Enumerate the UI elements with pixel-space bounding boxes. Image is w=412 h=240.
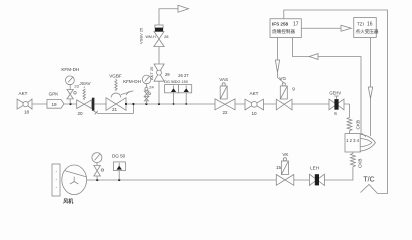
label VGBF 21 (109, 74, 122, 112)
valve AKT 29 (154, 64, 165, 81)
label CKB gas flex (356, 120, 361, 129)
svg-text:VAS: VAS (219, 77, 228, 82)
svg-text:6: 6 (334, 111, 337, 116)
gauge with test valve on air line (92, 153, 104, 181)
svg-text:点火变压器: 点火变压器 (356, 28, 379, 35)
valve LEH damper (309, 174, 324, 186)
ignition transformer box TZI (354, 18, 377, 38)
impulse line from JSAV to downstream (93, 104, 133, 114)
valve AKT 10 (245, 99, 264, 110)
valve JSAV 20 (77, 87, 95, 111)
label DG 50 air (112, 154, 126, 159)
label AKT 25 29 (149, 66, 170, 80)
svg-text:VGBF: VGBF (109, 74, 122, 79)
svg-text:烧嘴控制器: 烧嘴控制器 (272, 28, 295, 35)
svg-text:10: 10 (251, 111, 257, 116)
svg-text:IFS 258: IFS 258 (272, 22, 289, 27)
svg-text:CKB: CKB (356, 120, 361, 129)
thermocouple T/C (361, 185, 378, 194)
valve VG 9 solenoid (276, 83, 292, 111)
label fan 风机 (63, 198, 73, 205)
valve VSBV 28 relief (154, 25, 164, 47)
impulse line from VGBF dome to downstream (121, 91, 134, 95)
svg-text:VG: VG (279, 76, 286, 81)
wire IFS top loop to thermocouple (284, 10, 388, 194)
burner box 1 2 3 4 (345, 134, 360, 152)
wire gas drop to burner with CKB flex (347, 104, 352, 134)
svg-text:WM-H: WM-H (146, 35, 157, 39)
svg-text:LEH: LEH (310, 166, 319, 171)
label VSBV 25 (139, 27, 144, 44)
vent arrow (178, 5, 189, 12)
svg-text:DG 150: DG 150 (175, 80, 188, 84)
label TZI 16 (356, 22, 379, 36)
svg-text:KFM-DH: KFM-DH (123, 79, 141, 84)
wire flame signal from burner to IFS (293, 38, 367, 137)
node junction before JSAV (69, 103, 71, 105)
label GPK 19 (49, 91, 60, 106)
wire IFS control to VG with arrow (275, 38, 283, 83)
label T/C (363, 176, 374, 183)
gauge KFM-DH 24 with test valve (142, 75, 151, 105)
svg-text:T/C: T/C (363, 176, 374, 183)
label KFM-DH (61, 67, 79, 89)
wire vent riser (158, 9, 178, 105)
pressure switch DG50 DG150 26 27 (165, 85, 192, 105)
label AKT 18 (19, 91, 30, 114)
svg-text:15: 15 (276, 165, 282, 170)
svg-text:29: 29 (165, 72, 170, 77)
svg-text:CKB: CKB (358, 159, 363, 168)
svg-text:21: 21 (112, 107, 118, 112)
svg-text:1 2 3 4: 1 2 3 4 (346, 138, 359, 143)
fan 风机 (62, 165, 87, 195)
svg-text:AKT: AKT (19, 91, 28, 96)
valve VGBF 21 regulator (106, 79, 126, 111)
svg-text:JSAV: JSAV (79, 81, 91, 86)
label burner numbers (346, 138, 359, 143)
node downstream junction (125, 103, 135, 105)
label 26 27 DG (164, 73, 189, 84)
label CKB air flex (358, 159, 363, 168)
wire air line (87, 179, 310, 181)
wire ignition line TZI to burner (368, 38, 372, 137)
valve VK 15 solenoid (276, 158, 294, 186)
svg-text:26 27: 26 27 (178, 73, 189, 78)
label IFS 258 17 (272, 22, 299, 36)
svg-text:9: 9 (292, 87, 295, 92)
svg-text:VSBV 25: VSBV 25 (139, 27, 144, 44)
label KFM-DH 24 (123, 79, 154, 90)
burner nozzle (360, 134, 375, 151)
filter GPK 19 (47, 100, 64, 109)
svg-text:GPK: GPK (49, 91, 60, 96)
svg-text:AKT 25: AKT 25 (149, 66, 154, 80)
svg-text:DG 50: DG 50 (164, 80, 175, 84)
svg-text:18: 18 (24, 109, 30, 114)
svg-text:DG 50: DG 50 (112, 154, 126, 159)
label JSAV 20 (77, 81, 91, 116)
svg-text:16: 16 (367, 22, 373, 28)
label VG 9 (279, 76, 295, 91)
label GEHV 6 (329, 91, 341, 116)
label AKT 10 (250, 91, 259, 116)
svg-text:VK: VK (282, 152, 289, 157)
svg-text:TZI: TZI (357, 22, 364, 27)
wire IFS to TZI with arrow (301, 25, 351, 31)
label WM-H 28 (146, 34, 170, 39)
svg-text:KFM-DH: KFM-DH (61, 67, 79, 72)
valve VAS 22 solenoid (215, 83, 235, 110)
gauge KFM-DH 23 with test valve (66, 76, 77, 104)
svg-text:19: 19 (51, 102, 57, 107)
svg-text:22: 22 (222, 110, 228, 115)
pressure switch DG50 air (113, 162, 125, 181)
svg-text:24: 24 (149, 85, 154, 90)
valve AKT 18 (17, 99, 32, 109)
svg-text:AKT: AKT (250, 91, 259, 96)
svg-text:17: 17 (293, 22, 299, 28)
label LEH (310, 166, 319, 171)
air flex CKB below burner (324, 152, 355, 180)
label VK 15 (276, 152, 289, 170)
controller box IFS 258 (270, 19, 301, 38)
valve GEHV 6 (329, 96, 344, 110)
wire main gas line left segment (32, 103, 349, 105)
label VAS 22 (219, 77, 228, 115)
svg-text:28: 28 (164, 34, 169, 39)
svg-text:风机: 风机 (63, 198, 73, 205)
filter inlet (52, 164, 60, 196)
svg-text:GEHV: GEHV (329, 91, 341, 96)
svg-text:20: 20 (77, 111, 83, 116)
